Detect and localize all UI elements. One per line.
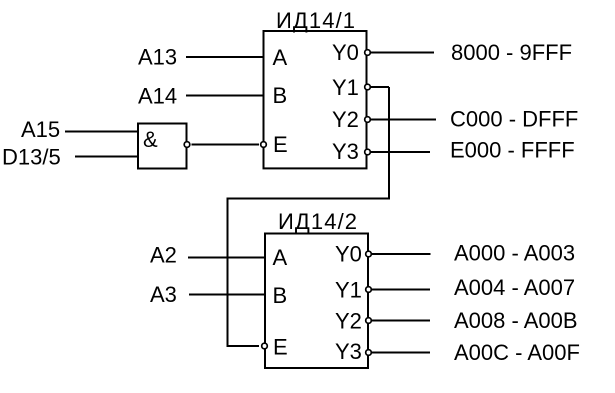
svg-text:8000 - 9FFF: 8000 - 9FFF	[451, 40, 572, 65]
svg-text:D13/5: D13/5	[2, 145, 61, 170]
wire DD1 Y0 to range label	[371, 52, 434, 54]
svg-text:ИД14/2: ИД14/2	[278, 209, 358, 234]
wire A13 to DD1 pin A	[186, 56, 263, 58]
inversion bubble at DD1 pin E	[261, 142, 267, 148]
svg-text:A008 - A00B: A008 - A00B	[454, 308, 578, 333]
wire gate DD2 output to DD1 pin E	[192, 144, 260, 146]
inversion bubble at DD3 output Y3	[366, 350, 372, 356]
inversion bubble at gate DD2 output	[184, 142, 190, 148]
wire DD1 Y1 horizontal stub	[371, 86, 389, 88]
svg-text:A: A	[273, 245, 288, 270]
wire A14 to DD1 pin B	[186, 95, 263, 97]
inversion bubble at DD3 output Y0	[366, 251, 372, 257]
wire Y1 feedback into DD3 pin E	[227, 345, 260, 347]
svg-text:Y0: Y0	[335, 242, 362, 267]
wire DD1 Y2 to range label	[371, 119, 436, 121]
svg-text:E000 - FFFF: E000 - FFFF	[450, 138, 575, 163]
inversion bubble at DD1 output Y3	[365, 149, 371, 155]
inversion bubble at DD3 output Y1	[366, 287, 372, 293]
inversion bubble at DD1 output Y1	[365, 84, 371, 90]
svg-text:A2: A2	[150, 243, 177, 268]
wire D13/5 to gate DD2 input	[75, 156, 138, 158]
svg-text:Y3: Y3	[335, 339, 362, 364]
svg-text:Y1: Y1	[332, 75, 359, 100]
wire A15 to gate DD2 input	[65, 131, 138, 133]
inversion bubble at DD3 output Y2	[366, 318, 372, 324]
wire DD3 Y2 to range label	[372, 320, 430, 322]
inversion bubble at DD1 output Y0	[365, 50, 371, 56]
svg-text:Y3: Y3	[332, 139, 359, 164]
inversion bubble at DD3 pin E	[262, 343, 268, 349]
svg-text:E: E	[273, 335, 288, 360]
svg-text:A: A	[273, 45, 288, 70]
svg-text:B: B	[273, 283, 288, 308]
svg-text:A004 - A007: A004 - A007	[454, 275, 575, 300]
svg-text:E: E	[273, 132, 288, 157]
wire DD1 Y3 to range label	[371, 151, 430, 153]
svg-text:A13: A13	[138, 45, 177, 70]
svg-text:Y1: Y1	[335, 278, 362, 303]
wire Y1 feedback horizontal run	[228, 198, 391, 200]
wire A3 to DD3 pin B	[189, 294, 265, 296]
wire A2 to DD3 pin A	[188, 257, 265, 259]
svg-text:A14: A14	[138, 84, 177, 109]
decoder DD3 body (ИД14/2)	[265, 234, 368, 369]
svg-text:B: B	[273, 83, 288, 108]
wire DD3 Y3 to range label	[372, 352, 430, 354]
wire Y1 feedback vertical to DD3 E	[227, 198, 229, 347]
inversion bubble at DD1 output Y2	[365, 117, 371, 123]
svg-text:A000 - A003: A000 - A003	[454, 241, 575, 266]
svg-text:A15: A15	[21, 117, 60, 142]
wire DD3 Y0 to range label	[372, 253, 431, 255]
svg-text:Y2: Y2	[332, 107, 359, 132]
svg-text:ИД14/1: ИД14/1	[276, 8, 356, 33]
svg-text:Y2: Y2	[335, 309, 362, 334]
svg-text:A00C - A00F: A00C - A00F	[454, 340, 580, 365]
AND gate DD2 body	[138, 124, 187, 169]
svg-text:A3: A3	[150, 282, 177, 307]
svg-text:&: &	[143, 127, 158, 152]
svg-text:C000 - DFFF: C000 - DFFF	[450, 107, 578, 132]
wire DD3 Y1 to range label	[372, 289, 430, 291]
decoder DD1 body (ИД14/1)	[264, 31, 367, 168]
wire Y1 feedback vertical drop	[388, 87, 390, 199]
svg-text:Y0: Y0	[332, 40, 359, 65]
